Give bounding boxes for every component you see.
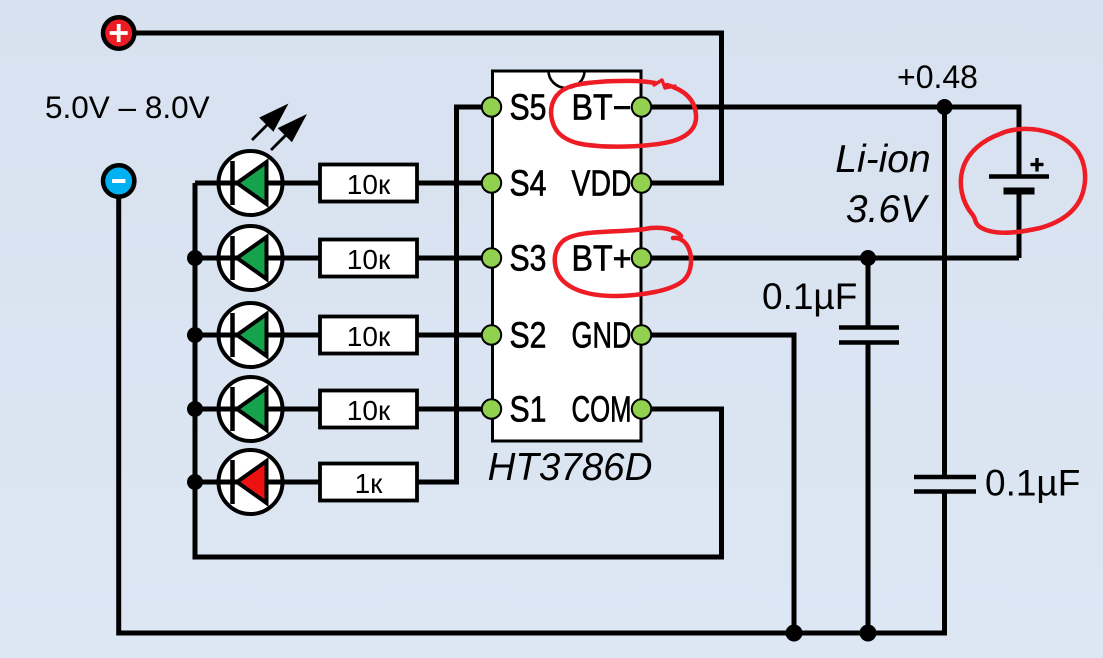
svg-text:COM: COM bbox=[572, 389, 632, 430]
svg-text:5.0V – 8.0V: 5.0V – 8.0V bbox=[45, 89, 210, 125]
svg-text:S2: S2 bbox=[510, 315, 547, 356]
svg-text:BT+: BT+ bbox=[572, 238, 632, 279]
svg-text:GND: GND bbox=[572, 315, 632, 356]
svg-text:BT−: BT− bbox=[572, 87, 632, 128]
svg-text:S5: S5 bbox=[510, 87, 547, 128]
svg-text:S1: S1 bbox=[510, 389, 547, 430]
svg-text:10к: 10к bbox=[347, 395, 391, 426]
svg-text:S4: S4 bbox=[510, 163, 547, 204]
svg-text:1к: 1к bbox=[355, 468, 384, 499]
svg-text:S3: S3 bbox=[510, 238, 547, 279]
svg-text:0.1µF: 0.1µF bbox=[985, 463, 1080, 504]
svg-text:VDD: VDD bbox=[572, 163, 632, 204]
svg-text:3.6V: 3.6V bbox=[846, 188, 930, 231]
svg-text:10к: 10к bbox=[347, 244, 391, 275]
svg-text:10к: 10к bbox=[347, 321, 391, 352]
svg-text:Li-ion: Li-ion bbox=[835, 138, 930, 181]
svg-text:+0.48: +0.48 bbox=[897, 59, 978, 95]
svg-text:0.1µF: 0.1µF bbox=[762, 276, 857, 317]
svg-text:HT3786D: HT3786D bbox=[488, 446, 653, 489]
svg-text:10к: 10к bbox=[347, 169, 391, 200]
